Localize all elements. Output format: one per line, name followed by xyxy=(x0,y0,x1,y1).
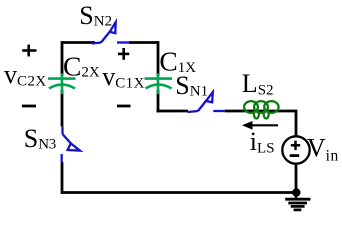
wire: C1X bottom lead down to corner xyxy=(157,90,160,112)
wire: left vertical C2X to S_N3 xyxy=(61,90,64,127)
wire: right vertical into V_in top xyxy=(295,110,298,137)
plus sign inside V_in xyxy=(291,141,300,151)
capacitor C2X xyxy=(48,74,76,95)
wire: top-left horizontal segment (corner to S_N2) xyxy=(62,41,95,44)
capacitor C1X xyxy=(145,74,173,95)
ground xyxy=(285,193,310,210)
wire: V_in bottom lead to junction xyxy=(295,164,298,193)
plus sign C2X xyxy=(22,45,36,57)
plus sign C1X xyxy=(118,48,129,60)
minus sign inside V_in xyxy=(290,154,300,157)
wire: right branch vertical upper (corner to C1X) xyxy=(157,41,160,76)
minus sign C2X xyxy=(22,105,36,108)
wire: bottom horizontal xyxy=(62,191,296,194)
switch S_N1 xyxy=(188,92,225,112)
arrow for i_LS (pointing left) xyxy=(242,121,278,130)
switch S_N3 xyxy=(62,127,80,163)
wire: horizontal S_N1 to V_in corner through L_S2 xyxy=(225,110,296,113)
switch S_N2 xyxy=(92,22,130,43)
inductor L_S2 xyxy=(244,101,278,118)
voltage source V_in xyxy=(282,136,309,163)
junction node dot xyxy=(292,188,300,196)
wire: bottom-middle horizontal (C1X corner to S_N1) xyxy=(157,110,188,113)
wire: top-right horizontal segment (S_N2 to corner) xyxy=(129,41,158,44)
minus sign C1X xyxy=(117,105,131,108)
wire: left vertical S_N3 to bottom corner xyxy=(61,162,64,194)
wire: left branch vertical upper (corner to C2X) xyxy=(61,41,64,76)
